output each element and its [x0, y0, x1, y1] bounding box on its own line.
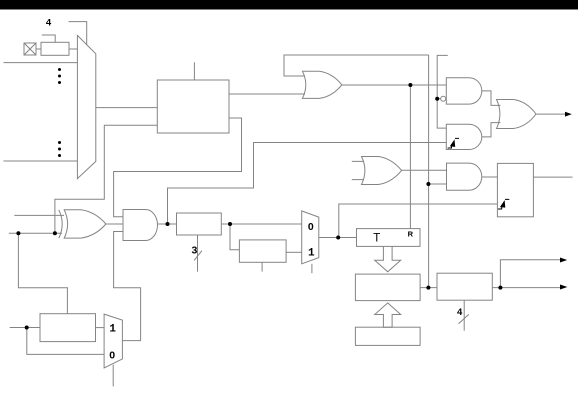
- svg-text:0: 0: [308, 221, 314, 233]
- svg-text:3: 3: [192, 244, 198, 256]
- svg-text:1: 1: [308, 247, 315, 259]
- svg-text:4: 4: [457, 307, 463, 318]
- svg-text:4: 4: [46, 17, 52, 28]
- svg-text:1: 1: [109, 323, 116, 335]
- svg-text:T: T: [373, 232, 380, 244]
- svg-text:0: 0: [109, 349, 115, 361]
- svg-text:R: R: [408, 229, 414, 238]
